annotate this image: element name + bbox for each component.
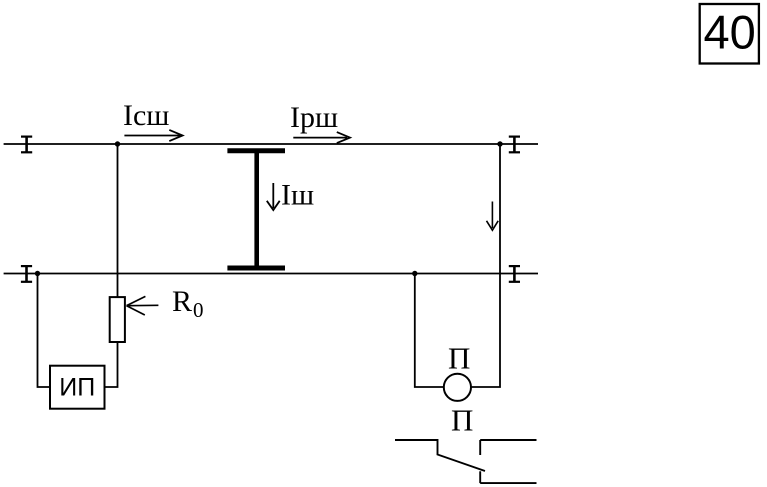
node dot bottom rail right — [412, 271, 417, 276]
wire from top rail right node down through bottom rail to relay right terminal — [471, 144, 500, 387]
wire top rail — [4, 143, 538, 145]
insulated joint top-left — [21, 136, 32, 153]
insulated joint bottom-right — [509, 265, 520, 282]
insulated joint top-right — [509, 136, 520, 153]
wire from bottom rail left node down to ИП box left side — [38, 274, 50, 388]
svg-text:40: 40 — [704, 6, 756, 59]
svg-text:ИП: ИП — [59, 373, 95, 401]
svg-text:R: R — [172, 285, 192, 318]
node dot bottom rail left — [35, 271, 40, 276]
shunt bar vertical (train axle) — [254, 150, 259, 269]
wire bottom rail — [4, 273, 538, 275]
node dot top rail right — [497, 141, 502, 146]
svg-text:П: П — [451, 403, 473, 438]
svg-text:0: 0 — [193, 298, 204, 322]
relay contact front terminal wire — [480, 439, 536, 441]
shunt top cap — [227, 148, 285, 153]
insulated joint bottom-left — [21, 265, 32, 282]
svg-text:Iш: Iш — [281, 179, 314, 212]
relay contact back terminal tick — [479, 471, 481, 483]
relay contact П: common pole with armature — [395, 440, 485, 471]
figure number box 40 — [700, 4, 759, 64]
arrow down near right wire — [487, 202, 499, 231]
relay contact front terminal tick — [479, 440, 481, 455]
wire from resistor to ИП box right side — [106, 343, 118, 387]
svg-text:П: П — [448, 340, 470, 375]
resistor R0 body — [110, 297, 125, 342]
wire from bottom rail right node down to relay left terminal — [415, 274, 444, 388]
relay coil П (circle) — [444, 374, 471, 401]
wire from top rail node down to resistor — [117, 144, 119, 297]
power supply box ИП — [50, 366, 105, 409]
arrow Iш (down) — [267, 183, 280, 210]
svg-text:Iрш: Iрш — [290, 101, 338, 134]
arrow Icш — [124, 130, 182, 141]
node dot top rail left — [115, 141, 120, 146]
arrow pointing to resistor R0 — [127, 296, 159, 315]
arrow Iрш — [293, 132, 350, 143]
relay contact back terminal wire — [480, 482, 536, 484]
shunt bottom cap — [227, 266, 285, 271]
svg-text:Iсш: Iсш — [123, 99, 169, 132]
